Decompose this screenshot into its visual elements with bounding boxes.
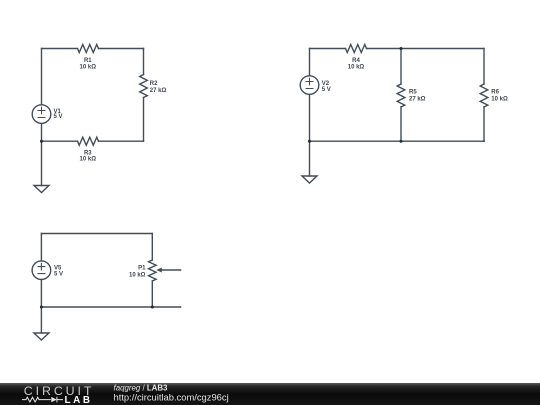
- voltage source V2: [300, 76, 319, 95]
- resistor R4: [346, 45, 367, 53]
- junction dot circuit2 bottom-mid: [400, 140, 403, 143]
- wire top-left circuit1 top: [42, 48, 144, 50]
- svg-text:5 V: 5 V: [322, 87, 331, 93]
- resistor R2: [140, 75, 148, 98]
- svg-text:10 kΩ: 10 kΩ: [80, 156, 97, 162]
- wire circuit2 right: [483, 49, 485, 142]
- ground circuit1: [34, 186, 49, 193]
- svg-text:10 kΩ: 10 kΩ: [491, 97, 508, 103]
- resistor R3: [78, 137, 99, 145]
- svg-text:V5: V5: [54, 266, 62, 272]
- wire circuit3 top: [41, 233, 152, 235]
- wire circuit3 bottom: [41, 306, 180, 308]
- wire circuit2 left: [309, 49, 311, 177]
- voltage source V1: [32, 105, 51, 124]
- svg-text:10 kΩ: 10 kΩ: [348, 65, 365, 71]
- junction dot circuit2 bottom-left: [308, 140, 311, 143]
- wire circuit1 bottom: [42, 140, 144, 142]
- ground circuit2: [302, 176, 317, 183]
- resistor R5: [397, 84, 405, 107]
- svg-text:http://circuitlab.com/cgz96cj: http://circuitlab.com/cgz96cj: [114, 391, 229, 402]
- svg-text:R5: R5: [409, 90, 417, 96]
- svg-text:27 kΩ: 27 kΩ: [409, 97, 426, 103]
- svg-text:R1: R1: [84, 58, 92, 64]
- logo schematic: wire, resistor, diode: [22, 397, 63, 403]
- junction dot circuit3 left: [40, 306, 43, 309]
- resistor R6: [480, 84, 488, 107]
- P1 wiper arrowhead: [156, 268, 162, 273]
- resistor R1: [78, 45, 99, 53]
- svg-text:R4: R4: [352, 58, 360, 64]
- footer bar: [0, 383, 540, 405]
- svg-text:R2: R2: [150, 81, 158, 87]
- junction dot circuit2 top: [400, 47, 403, 50]
- svg-text:10 kΩ: 10 kΩ: [80, 65, 97, 71]
- ground circuit3: [34, 333, 49, 340]
- wire circuit2 bottom: [310, 140, 485, 142]
- svg-text:LAB: LAB: [65, 395, 93, 405]
- svg-text:5 V: 5 V: [54, 272, 63, 278]
- potentiometer P1: [149, 260, 157, 281]
- wire circuit1 left: [41, 49, 43, 186]
- wire circuit3 right: [151, 234, 153, 308]
- svg-text:R6: R6: [491, 90, 499, 96]
- junction dot circuit1: [40, 140, 43, 143]
- wire circuit2 top: [310, 48, 485, 50]
- svg-text:10 kΩ: 10 kΩ: [129, 272, 146, 278]
- wire circuit1 right: [143, 49, 145, 142]
- svg-text:27 kΩ: 27 kΩ: [150, 88, 167, 94]
- wire circuit3 left: [40, 234, 42, 334]
- P1 wiper wire: [161, 269, 181, 271]
- wire circuit2 R5 branch: [400, 49, 402, 142]
- svg-text:5 V: 5 V: [54, 114, 63, 120]
- voltage source V5: [32, 261, 51, 280]
- logo diode triangle: [51, 397, 56, 402]
- junction dot circuit3 mid: [151, 306, 154, 309]
- svg-text:P1: P1: [138, 266, 146, 272]
